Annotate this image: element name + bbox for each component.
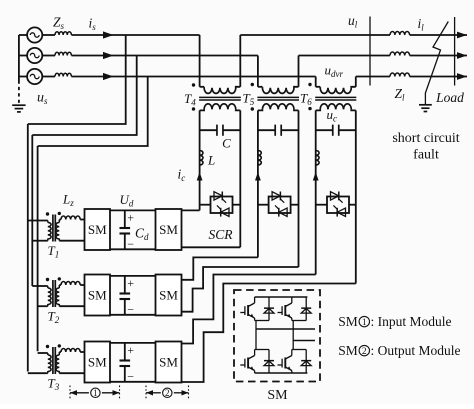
svg-text:T3: T3 (48, 376, 60, 393)
inductor Zs phase A (55, 32, 71, 35)
module box SM1 row1 (85, 209, 111, 250)
wire cell TR bottom (292, 320, 306, 322)
wire SM2 row2 top output (182, 257, 258, 279)
wire phase B to load (410, 55, 467, 57)
wire dc bottom row1 (110, 248, 156, 250)
inductor Zl phase C (390, 73, 410, 77)
svg-text:+: + (127, 276, 134, 290)
module box SM2 row3 (156, 342, 182, 383)
dimension arrow output module 2 (146, 386, 189, 399)
arrow il phase C (457, 73, 467, 80)
polarity dot T5 secondary (251, 107, 254, 110)
wire T5 primary entry (257, 56, 259, 87)
svg-text:uc: uc (327, 107, 338, 124)
wire tap phase A (28, 35, 126, 124)
svg-text:−: − (127, 237, 134, 251)
svg-text:C: C (222, 136, 231, 151)
wire phase A to series transformer (71, 34, 199, 36)
wire T4 secondary right leg (239, 110, 241, 247)
wire phase B to series transformer (71, 55, 258, 57)
polarity dot secondary row3 (58, 344, 61, 347)
capacitor C phase C (316, 125, 356, 136)
svg-text:SM: SM (159, 222, 178, 237)
polarity dot primary row1 (46, 212, 49, 215)
polarity dot primary row2 (46, 278, 49, 281)
thyristor pair SCR phase C (327, 192, 349, 217)
wire dc top row1 (110, 209, 156, 211)
transformer T4 windings (199, 87, 241, 111)
diode D4 bottom-right (301, 350, 311, 374)
legend SM2 output module (338, 343, 460, 358)
node mid rail left (256, 328, 315, 330)
arrow ic phase A (197, 172, 203, 181)
transformer T winding row3 (28, 347, 60, 374)
svg-text:T6: T6 (300, 91, 312, 108)
inductor Lz row3 (59, 349, 84, 352)
module box SM2 row1 (156, 209, 182, 250)
svg-text:Zs: Zs (53, 15, 65, 32)
wire scr A left (200, 204, 211, 206)
wire scr B right (291, 204, 299, 206)
capacitor C phase B (258, 125, 299, 136)
capacitor C phase A (200, 125, 241, 136)
wire secondary bottom to SM1 row1 (59, 240, 84, 242)
svg-text:: Output Module: : Output Module (371, 343, 461, 358)
SM detail dashed box (234, 290, 320, 382)
diode D3 bottom-left (264, 350, 274, 374)
svg-text:1: 1 (362, 318, 367, 328)
svg-text:Load: Load (435, 90, 464, 105)
wire feeder V2 (31, 135, 33, 286)
wire SM2 row3 top output (182, 275, 316, 344)
svg-text:SM: SM (159, 288, 178, 303)
wire dc bottom row2 (110, 314, 156, 316)
inductor Lz row2 (59, 282, 84, 285)
polarity dot secondary row2 (58, 277, 61, 280)
svg-text:is: is (89, 16, 97, 33)
arrow il phase A (457, 32, 467, 39)
svg-text:fault: fault (413, 148, 439, 163)
wire T5 primary exit (298, 56, 300, 87)
ac source phase C (19, 69, 42, 84)
svg-text:+: + (127, 211, 134, 225)
inductor L phase A (200, 151, 203, 166)
svg-text:SM: SM (338, 314, 358, 329)
arrow ic phase B (255, 172, 261, 181)
polarity dot T4 secondary (192, 107, 195, 110)
svg-text:Ud: Ud (120, 192, 134, 209)
svg-text:2: 2 (362, 347, 367, 357)
transformer T winding row1 (28, 215, 60, 242)
wire cell TL bottom (255, 320, 269, 322)
transformer T6 windings (315, 87, 356, 111)
wire cell BL top (255, 349, 269, 351)
thyristor pair SCR phase B (269, 192, 291, 217)
node mid rail right (293, 340, 315, 342)
module box SM1 row2 (85, 275, 111, 316)
wire scr A right (233, 204, 241, 206)
svg-text:il: il (418, 16, 425, 33)
wire T5 secondary right leg (298, 110, 300, 267)
wire line C after T6 (356, 76, 390, 78)
wire dc top row2 (110, 275, 156, 277)
inductor Zs phase B (55, 52, 71, 55)
polarity dot T6 primary (308, 83, 311, 86)
node us dashed lead (18, 81, 20, 104)
svg-text:−: − (127, 303, 134, 317)
diode D1 top-left (264, 297, 274, 321)
arrow is phase A (103, 31, 114, 38)
arrow is phase C (103, 73, 114, 80)
transformer T5 windings (257, 87, 299, 111)
IGBT Q2 top-right (278, 297, 292, 321)
inductor L phase B (258, 151, 261, 166)
svg-text:SCR: SCR (208, 227, 233, 242)
svg-text:+: + (127, 343, 134, 357)
polarity dot secondary row1 (58, 212, 61, 215)
wire T4 primary entry (199, 35, 201, 87)
capacitor Cd row2 (120, 276, 135, 317)
capacitor Cd row1 (120, 210, 135, 251)
wire phase C source segment (42, 76, 55, 78)
wire SM2 row1 top output (182, 209, 200, 211)
IGBT Q4 bottom-right (278, 350, 292, 374)
wire tap phase B (32, 56, 136, 136)
wire SM2 row3 bottom output (182, 284, 356, 383)
thyristor pair SCR phase A (211, 192, 233, 217)
polarity dot primary row3 (46, 345, 49, 348)
wire T4 secondary left leg (199, 110, 201, 210)
polarity dot T6 secondary (308, 107, 311, 110)
wire phase A to load (410, 34, 467, 36)
module box SM1 row3 (85, 342, 111, 383)
svg-text:SM: SM (159, 355, 178, 370)
svg-text:T5: T5 (243, 91, 255, 108)
svg-text:T1: T1 (48, 243, 60, 260)
svg-text:T2: T2 (48, 309, 60, 326)
svg-text:ic: ic (178, 167, 186, 184)
wire secondary bottom to SM1 row2 (59, 305, 84, 307)
inductor Lz row1 (59, 216, 84, 220)
svg-text:SM: SM (338, 343, 358, 358)
dimension arrow input module 1 (70, 386, 120, 399)
svg-text:us: us (37, 91, 48, 107)
module box SM2 row2 (156, 275, 182, 316)
svg-text:SM: SM (88, 222, 107, 237)
wire phase C to series transformer (71, 76, 315, 78)
wire scr C right (349, 204, 356, 206)
H-bridge top rail (255, 296, 308, 298)
svg-text:Lz: Lz (62, 192, 74, 209)
wire SM2 row1 bottom output (182, 246, 241, 248)
inductor Zs phase C (55, 73, 71, 76)
wire SM2 row2 bottom output (182, 267, 299, 312)
wire secondary bottom to SM1 row3 (59, 372, 84, 374)
wire T6 primary exit (355, 77, 357, 87)
svg-text:Cd: Cd (135, 226, 149, 243)
polarity dot T4 primary (192, 83, 195, 86)
node ul vertical (369, 17, 371, 86)
svg-text:ul: ul (348, 13, 358, 30)
wire feeder V1 (27, 124, 29, 372)
capacitor Cd row3 (120, 343, 135, 384)
wire T4 primary exit (239, 35, 241, 87)
wire T6 secondary right leg (355, 110, 357, 283)
svg-text:−: − (127, 370, 134, 384)
ac source phase A (19, 27, 42, 42)
svg-text:SM: SM (267, 388, 288, 403)
wire dc top row3 (110, 342, 156, 344)
load bus vertical (454, 17, 456, 86)
svg-text:2: 2 (165, 388, 170, 398)
arrow il phase B (457, 52, 467, 59)
svg-text:L: L (207, 153, 215, 168)
legend SM1 input module (338, 314, 451, 329)
short circuit bolt (425, 22, 448, 105)
wire feeder V3 (37, 146, 39, 351)
wire midpoint right leg (292, 321, 294, 350)
wire T6 secondary left leg (315, 110, 317, 274)
wire T6 primary entry (315, 77, 317, 87)
wire tap phase C (38, 77, 148, 147)
svg-text:SM: SM (88, 288, 107, 303)
polarity dot T5 primary (251, 83, 254, 86)
svg-text:1: 1 (93, 388, 98, 398)
H-bridge bottom rail (255, 372, 308, 374)
inductor L phase C (316, 151, 319, 166)
ground under source (12, 105, 25, 112)
svg-text:: Input Module: : Input Module (371, 314, 452, 329)
ground fault (419, 105, 432, 112)
wire scr C left (316, 204, 327, 206)
wire phase A source segment (42, 34, 55, 36)
wire left vertical joining sources (18, 35, 20, 81)
inductor Zl phase B (390, 52, 410, 56)
diode D2 top-right (301, 297, 311, 321)
svg-text:T4: T4 (184, 91, 196, 108)
ac source phase B (19, 48, 42, 63)
wire cell BR top (292, 349, 306, 351)
IGBT Q3 bottom-left (240, 350, 254, 374)
wire phase B source segment (42, 55, 55, 57)
svg-text:short circuit: short circuit (392, 131, 459, 146)
wire T5 secondary left leg (257, 110, 259, 257)
svg-text:Zl: Zl (395, 86, 406, 103)
transformer T winding row2 (32, 280, 59, 307)
IGBT Q1 top-left (240, 297, 254, 321)
wire midpoint left leg (255, 321, 257, 350)
inductor Zl phase A (390, 32, 410, 36)
wire line A after T4 (240, 34, 390, 36)
svg-text:SM: SM (88, 355, 107, 370)
wire scr B left (258, 204, 269, 206)
wire phase C to load (410, 76, 467, 78)
wire line B after T5 (299, 55, 391, 57)
arrow ic phase C (313, 172, 319, 181)
svg-text:udvr: udvr (325, 63, 344, 80)
wire dc bottom row3 (110, 381, 156, 383)
arrow is phase B (103, 52, 114, 59)
